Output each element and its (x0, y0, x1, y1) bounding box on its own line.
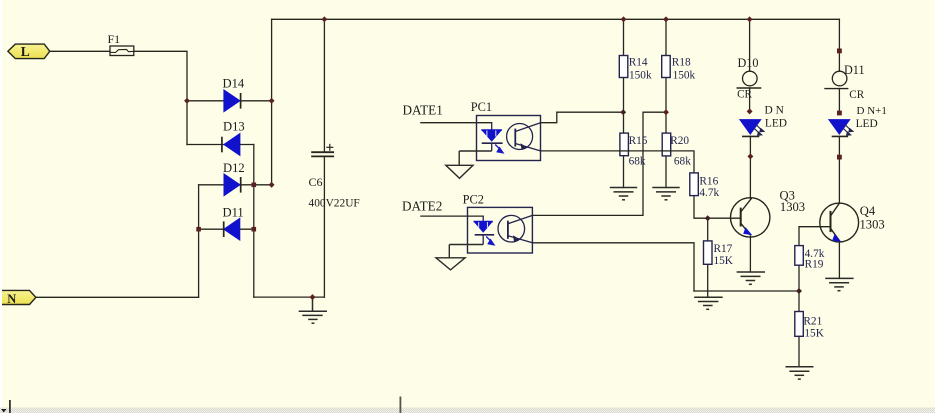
opto-coupler PC1 (459, 100, 540, 161)
svg-text:68k: 68k (629, 155, 646, 167)
resistor R17 (704, 241, 734, 267)
svg-text:C6: C6 (309, 175, 323, 189)
wire R17 to ground (707, 264, 709, 297)
junction LED DN bottom (747, 153, 753, 159)
wire F1 output to vertical (134, 51, 187, 144)
wire PC1 emitter to R16 (541, 151, 695, 173)
wire D13 row (187, 144, 254, 146)
wire R16 to Q3 base (694, 196, 741, 219)
svg-text:R21: R21 (803, 315, 822, 327)
photoresistor D10 (737, 56, 762, 100)
resistor R18 (662, 56, 696, 82)
wire D11 row (199, 228, 254, 230)
capacitor C6 (309, 144, 360, 210)
diode D13 (222, 119, 245, 155)
svg-text:R18: R18 (672, 57, 691, 69)
diode D12 (223, 161, 245, 196)
wire R21 to ground (798, 336, 800, 367)
wire D12 row (199, 184, 272, 186)
wire F1 input from L (50, 50, 110, 52)
ground R20 (652, 188, 679, 200)
scrollbar tick left (9, 400, 11, 413)
port L (8, 44, 50, 59)
resistor R20 (662, 133, 691, 167)
wire top rail (272, 18, 840, 20)
svg-text:15K: 15K (804, 328, 824, 340)
ground Q4 (825, 278, 853, 290)
junction D11 bottom square (837, 111, 842, 116)
svg-text:D N: D N (765, 105, 784, 117)
svg-text:F1: F1 (108, 32, 121, 46)
left edge strip (0, 0, 2, 413)
junction D12 right (269, 182, 275, 188)
svg-text:DATE1: DATE1 (403, 102, 443, 117)
svg-text:150k: 150k (673, 70, 696, 82)
wire LED DN1 to Q4 collector (838, 136, 840, 202)
diode D14 (223, 77, 245, 112)
ground R17 (694, 297, 723, 309)
wire Q3 emitter to ground (749, 237, 751, 273)
wire D11 to LED DN1 (838, 89, 840, 113)
junction D11 top square (837, 49, 842, 54)
scrollbar arrow bottom-left (1, 409, 7, 413)
svg-text:Q4: Q4 (860, 204, 876, 218)
svg-text:1303: 1303 (860, 218, 885, 232)
photoresistor D11 (824, 63, 864, 101)
svg-text:D12: D12 (223, 161, 245, 175)
svg-text:R14: R14 (629, 57, 648, 69)
resistor R19 (795, 246, 825, 271)
wire left vertical D12 to N row (198, 185, 200, 297)
diode D11 (223, 206, 244, 241)
LED D N (739, 105, 787, 137)
svg-text:PC2: PC2 (463, 192, 484, 206)
port N (0, 290, 36, 305)
junction node A (620, 109, 626, 115)
opto-coupler PC2 (449, 192, 532, 253)
wire R19 top to Q4 base (799, 227, 831, 246)
wire bridge bottom to ground junction (254, 296, 325, 298)
svg-text:L: L (21, 44, 30, 59)
wire PC2 collector to node B branch (532, 112, 666, 215)
ground Q3 (737, 272, 765, 284)
svg-text:CR: CR (737, 88, 752, 100)
junction LED DN1 bottom square (837, 155, 842, 160)
wire R19 bottom (798, 265, 800, 291)
fuse F1 (108, 32, 134, 56)
wire Q4 emitter to ground (838, 243, 840, 278)
wire R18 to R20 node B (665, 78, 667, 134)
wire C6 top (323, 19, 325, 152)
wire left vertical from top rail to D14/D12 (271, 19, 273, 184)
resistor R14 (619, 56, 652, 82)
junction D11 left square (196, 227, 201, 232)
wire PC2 emitter to bottom rail (532, 243, 694, 291)
svg-text:N: N (7, 292, 16, 306)
svg-text:R17: R17 (714, 243, 733, 255)
svg-text:1303: 1303 (780, 200, 805, 214)
wire R15 to ground (623, 156, 625, 188)
svg-text:D13: D13 (223, 119, 245, 133)
ground PC2 (signal) (436, 245, 465, 270)
svg-text:150k: 150k (629, 70, 652, 82)
junction D11 right square (252, 227, 257, 232)
wire DATE1 to PC1 (421, 122, 492, 124)
svg-text:PC1: PC1 (471, 100, 492, 114)
junction ground C6 (310, 294, 316, 300)
junction Q3 base R17 (705, 215, 711, 221)
svg-text:R19: R19 (805, 258, 824, 270)
svg-text:R15: R15 (629, 135, 648, 147)
resistor R21 (795, 312, 825, 340)
wire C6 bottom (323, 156, 325, 297)
resistor R15 (620, 133, 648, 167)
svg-text:CR: CR (849, 89, 864, 101)
wire PC1 collector to node A (541, 112, 624, 123)
junction top rail R18 (663, 16, 669, 22)
junction node B (663, 109, 669, 115)
LED D N+1 (828, 105, 887, 136)
svg-text:R20: R20 (670, 135, 689, 147)
ground PC1 (signal) (446, 151, 473, 178)
wire LED DN to Q3 collector (749, 136, 751, 198)
ground R21 (786, 367, 814, 379)
junction D10 bottom (747, 108, 753, 114)
wire D11 column top (838, 19, 840, 71)
svg-text:D11: D11 (223, 206, 244, 220)
svg-text:D N+1: D N+1 (857, 105, 887, 117)
wire R17 column (707, 218, 709, 241)
scrollbar tick mid (400, 397, 402, 413)
wire D10 to LED DN (749, 88, 751, 111)
svg-text:D10: D10 (738, 56, 759, 70)
svg-text:D14: D14 (223, 77, 245, 91)
wire R14 column top (623, 19, 625, 55)
junction top rail D10 (747, 16, 753, 22)
svg-text:400V22UF: 400V22UF (309, 197, 360, 209)
junction bottom rail R21 (796, 288, 802, 294)
wire N row (36, 296, 199, 298)
ground R15 (610, 188, 637, 200)
svg-text:LED: LED (765, 118, 787, 130)
ground bridge/C6 (299, 297, 327, 323)
wire bottom rail (694, 290, 799, 292)
wire DATE2 to PC2 (421, 215, 483, 217)
svg-text:15K: 15K (714, 255, 734, 267)
svg-text:4.7k: 4.7k (699, 187, 719, 199)
scrollbar track (0, 408, 935, 413)
wire R21 top (798, 291, 800, 312)
junction top rail R14 (621, 16, 627, 22)
svg-text:68k: 68k (674, 155, 691, 167)
wire D14 row (187, 100, 272, 102)
resistor R16 (690, 173, 720, 199)
svg-text:LED: LED (856, 118, 878, 130)
transistor Q4 (820, 202, 885, 242)
svg-text:R16: R16 (699, 175, 718, 187)
svg-text:D11: D11 (844, 63, 865, 77)
wire mid vertical D13 to bridge bottom (253, 145, 255, 298)
junction top rail C6 (321, 16, 327, 22)
junction D14 right (269, 98, 275, 104)
wire R18 column top (665, 19, 667, 55)
transistor Q3 (731, 189, 806, 238)
svg-text:DATE2: DATE2 (402, 199, 442, 214)
wire R14 to R15 node A (623, 78, 625, 134)
junction D12 mid square (252, 183, 257, 188)
junction F1 vertical D14 (184, 98, 190, 104)
wire R20 to ground (665, 156, 667, 188)
wire PC1 emitter crossing R15 R20 bodies (619, 150, 672, 152)
wire D10 column top (749, 19, 751, 71)
